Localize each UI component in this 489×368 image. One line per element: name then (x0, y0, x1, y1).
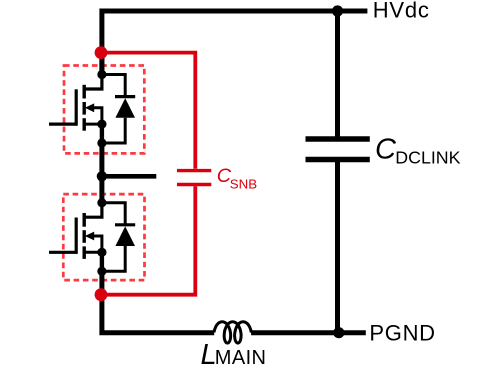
svg-text:C: C (375, 133, 397, 165)
svg-text:HVdc: HVdc (373, 0, 430, 22)
svg-text:PGND: PGND (369, 320, 435, 345)
svg-text:SNB: SNB (230, 177, 257, 192)
svg-text:MAIN: MAIN (215, 347, 267, 368)
svg-text:DCLINK: DCLINK (395, 148, 460, 168)
